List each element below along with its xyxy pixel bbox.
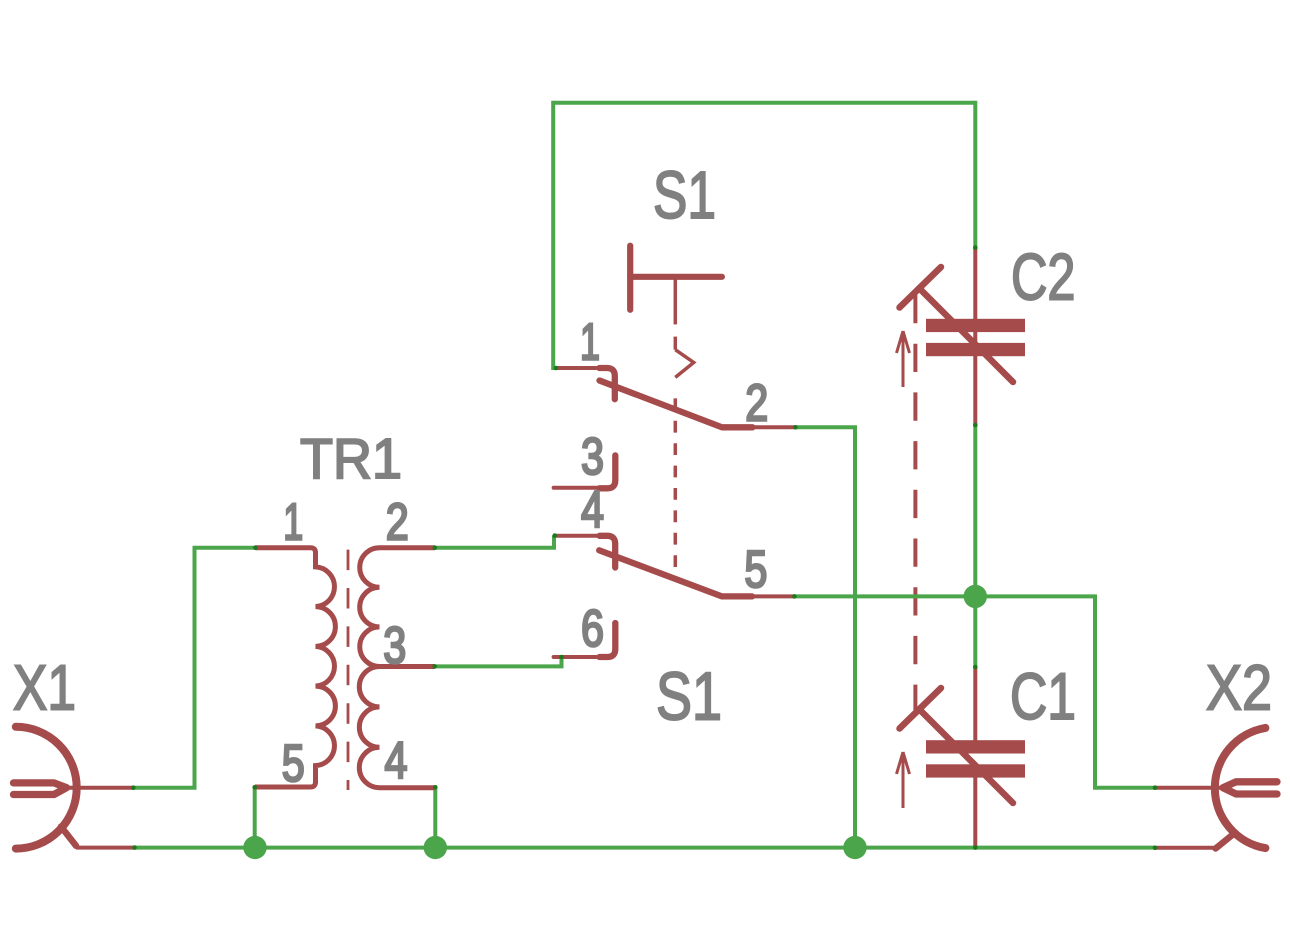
X1 center pin fork bbox=[14, 783, 67, 795]
X1 pin node dots bbox=[131, 785, 136, 790]
S1 pin 1 contact hook bbox=[600, 368, 615, 399]
wire from S1 pin2 right then down to bottom bus bbox=[795, 427, 855, 847]
svg-text:4: 4 bbox=[581, 481, 604, 539]
S1 pin 1 node dot bbox=[554, 366, 559, 371]
C1 trimmer tee bar bbox=[900, 688, 942, 729]
junction at TR1 pin4 / bottom bus bbox=[424, 836, 447, 859]
C1 top lead bbox=[973, 667, 977, 741]
S1 actuator vertical bar bbox=[627, 246, 633, 310]
svg-text:1: 1 bbox=[283, 494, 303, 552]
svg-text:X2: X2 bbox=[1206, 652, 1272, 724]
C2 adjust arrow bbox=[897, 331, 910, 387]
S1 pin 5 line bbox=[752, 594, 794, 598]
X2 pin node dots bbox=[1153, 785, 1158, 790]
svg-text:S1: S1 bbox=[653, 158, 716, 233]
S1 actuator horizontal bar bbox=[630, 274, 722, 280]
wire TR1 pin4 down to bottom bus bbox=[433, 787, 437, 847]
X1 shell arc bbox=[16, 727, 77, 849]
svg-text:3: 3 bbox=[383, 617, 406, 675]
junction node between C1 and C2 bbox=[964, 585, 987, 608]
svg-text:3: 3 bbox=[581, 428, 604, 486]
S1 linkage dashed line bbox=[674, 398, 678, 567]
S1 pin 6 stub bbox=[554, 655, 601, 659]
X2 shell contact tab bbox=[1216, 834, 1233, 848]
C1 pin node dots bbox=[973, 665, 978, 670]
junction at S1 pin2 wire / bottom bus bbox=[843, 836, 866, 859]
S1 actuator button bbox=[630, 246, 722, 567]
S1 section B arm bbox=[599, 550, 752, 596]
TR1 secondary winding lower pins 3-4 bbox=[359, 667, 435, 788]
C1 bottom lead bbox=[973, 777, 977, 848]
svg-text:C1: C1 bbox=[1010, 659, 1076, 733]
switch S1 section A (pins 1-2) bbox=[556, 368, 795, 427]
wire X1 center pin to TR1 pin 1 bbox=[133, 548, 255, 788]
variable capacitor C1 bbox=[897, 667, 1026, 848]
svg-text:4: 4 bbox=[385, 732, 408, 790]
S1 section A arm bbox=[600, 381, 753, 428]
S1 pin 2 line bbox=[753, 425, 796, 429]
svg-text:5: 5 bbox=[282, 735, 305, 793]
wire C2 bottom to junction to C1 top bbox=[973, 425, 977, 667]
S1 actuator stem bbox=[674, 277, 678, 325]
S1 pin 6 contact hook bbox=[600, 623, 616, 657]
TR1 primary winding pins 1-5 bbox=[255, 548, 336, 787]
wire TR1 pin3 to S1 pin6 bbox=[435, 657, 562, 666]
wire top horizontal from S1 pin1 riser to C2 top bbox=[553, 101, 975, 105]
S1 pin 3 contact hook bbox=[600, 455, 616, 488]
svg-text:5: 5 bbox=[744, 541, 767, 599]
C2 top lead bbox=[973, 248, 977, 425]
C1 bottom plate bbox=[926, 764, 1025, 777]
svg-text:TR1: TR1 bbox=[300, 427, 402, 491]
X1 center pin line bbox=[66, 786, 134, 790]
X1 shell contact tab bbox=[61, 827, 76, 846]
svg-text:C2: C2 bbox=[1011, 239, 1076, 313]
S1 pin 4 stub bbox=[555, 534, 601, 538]
S1 pin 4 contact hook bbox=[600, 536, 616, 568]
svg-text:S1: S1 bbox=[656, 658, 722, 734]
wire TR1 pin2 to S1 pin4 bbox=[435, 536, 554, 548]
gang coupling dashed line C1-C2 bbox=[913, 295, 917, 710]
C1 top plate bbox=[926, 740, 1025, 753]
C2 top plate bbox=[926, 319, 1025, 332]
connector X2 bbox=[1155, 728, 1277, 849]
svg-text:2: 2 bbox=[386, 494, 409, 552]
C1 trimmer shaft bbox=[920, 710, 1013, 803]
TR1 core dashed line bbox=[347, 550, 350, 790]
wire left riser down to S1 pin 1 bbox=[553, 101, 556, 368]
wire TR1 pin5 down to bottom bus bbox=[253, 787, 257, 847]
S1 pin 2 node dot bbox=[793, 425, 798, 430]
X2 shell pin line bbox=[1155, 846, 1215, 850]
transformer TR1 bbox=[255, 548, 436, 790]
svg-text:X1: X1 bbox=[13, 652, 76, 724]
svg-text:6: 6 bbox=[581, 600, 604, 658]
X1 shell pin line bbox=[76, 846, 135, 850]
wire bottom bus X1 to X2 bbox=[135, 846, 1156, 850]
switch S1 section B (pins 3,4,5,6) bbox=[554, 455, 795, 657]
svg-text:1: 1 bbox=[580, 314, 600, 372]
C2 bottom plate bbox=[926, 343, 1025, 356]
connector X1 bbox=[14, 727, 135, 849]
C2 trimmer shaft bbox=[920, 289, 1013, 382]
variable capacitor C2 bbox=[897, 248, 1026, 425]
C1 adjust arrow bbox=[897, 752, 910, 808]
wire from S1 pin5 to junction and on to X2 bbox=[794, 596, 1155, 787]
wire right riser down to C2 pin top bbox=[973, 101, 977, 248]
junction at TR1 pin5 / bottom bus bbox=[243, 836, 266, 859]
S1 pin 3 stub bbox=[554, 486, 601, 490]
S1 pin 1 stub bbox=[556, 366, 601, 370]
S1 linkage chevron bbox=[675, 350, 693, 378]
C2 pin node dots bbox=[973, 245, 978, 250]
TR1 pin node dots bbox=[253, 545, 258, 550]
X2 shell arc bbox=[1215, 728, 1266, 848]
X2 center pin line bbox=[1155, 786, 1223, 790]
S1 pin 6 node dot bbox=[559, 655, 564, 660]
S1 linkage dashed upper bbox=[674, 337, 678, 350]
svg-text:2: 2 bbox=[745, 375, 768, 433]
C2 trimmer tee bar bbox=[900, 267, 942, 308]
S1 pin 4 node dot bbox=[552, 533, 557, 538]
TR1 secondary winding upper pins 2-3 bbox=[360, 548, 435, 667]
S1 pin 5 node dot bbox=[792, 594, 797, 599]
X2 center pin fork bbox=[1223, 782, 1277, 794]
